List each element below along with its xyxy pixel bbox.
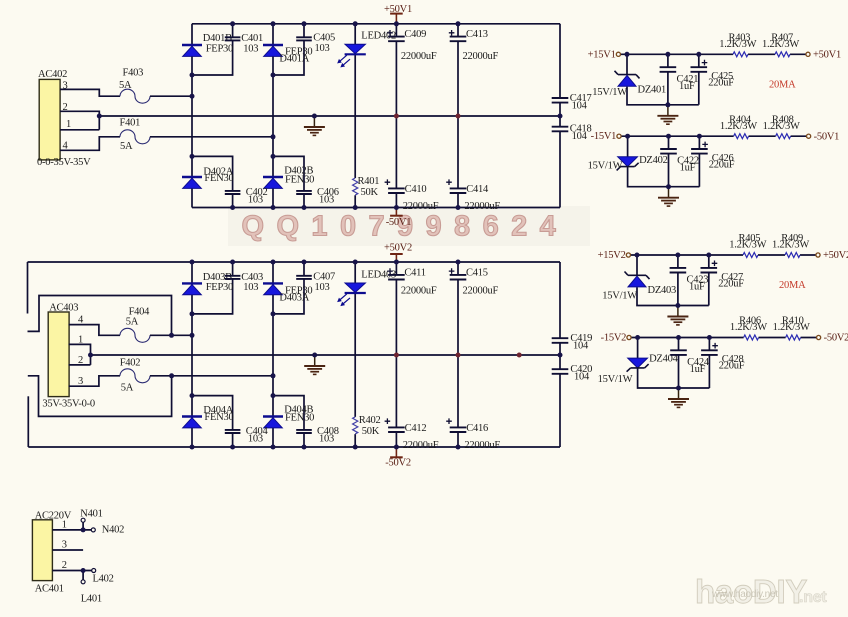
wire +15V2 rail — [631, 254, 816, 256]
node -15V2 junctions — [635, 335, 712, 391]
ground +15V1 — [657, 105, 678, 124]
capacitor C407 — [296, 272, 335, 294]
terminal +15V2 — [598, 250, 631, 261]
wire F403 output to AC1 node — [150, 95, 192, 97]
svg-text:1.2K/3W: 1.2K/3W — [720, 121, 757, 132]
svg-text:+50V2: +50V2 — [384, 242, 412, 253]
wire +15V1 zener branch — [627, 54, 699, 105]
watermark haoDIY.net — [695, 573, 827, 610]
node junctions section2 mid rail red — [394, 353, 522, 358]
svg-text:220uF: 220uF — [708, 78, 734, 89]
wire AC402 pins 2 and 1 tie (0V) — [60, 111, 99, 130]
svg-text:www.haodiy.net: www.haodiy.net — [711, 589, 778, 600]
svg-text:104: 104 — [572, 131, 588, 142]
wire LED/R401 column (x=355.2) — [354, 24, 356, 208]
svg-text:15V/1W: 15V/1W — [592, 87, 627, 98]
svg-text:D403A: D403A — [279, 293, 309, 304]
svg-text:5A: 5A — [120, 141, 133, 152]
svg-text:20MA: 20MA — [769, 79, 796, 90]
wire right loop C419/C420 branch — [559, 262, 561, 447]
diode D401B — [182, 33, 233, 56]
wire -15V2 zener branch — [638, 338, 710, 389]
wire filter column C413/C414 (x=458) — [457, 24, 459, 208]
wire bridge column AC2 section2 (x=273) — [272, 262, 274, 447]
capacitor C402 — [225, 187, 268, 206]
wire AC403 pin 4 to fuse F404 — [69, 325, 120, 336]
LED LED403 — [338, 269, 396, 305]
svg-text:22000uF: 22000uF — [463, 51, 499, 62]
wire left loop lower stub — [28, 376, 172, 417]
capacitor C401 — [225, 33, 263, 54]
capacitor C403 — [225, 272, 263, 293]
wire AC402 pin 4 to fuse F401 — [60, 137, 120, 151]
capacitor C417 — [552, 93, 592, 112]
zener diode DZ402 — [588, 155, 668, 172]
svg-text:103: 103 — [248, 434, 263, 445]
svg-text:N402: N402 — [102, 525, 124, 536]
capacitor C416 — [446, 418, 500, 450]
node junctions section2 bridge — [88, 311, 563, 398]
svg-text:+50V1: +50V1 — [813, 50, 841, 61]
svg-text:220uF: 220uF — [719, 361, 745, 372]
diode D402B — [263, 166, 314, 189]
node junctions section2 bottom rail — [190, 445, 461, 450]
node junctions section1 bottom rail — [230, 205, 460, 210]
svg-text:C416: C416 — [466, 423, 488, 434]
power port +50V2 top — [384, 242, 412, 262]
wire filter column C409/C410 (x=396.4) — [395, 24, 397, 208]
ground main section2 — [304, 355, 325, 374]
wire node wire D404B/C408 — [273, 396, 304, 447]
svg-text:22000uF: 22000uF — [403, 440, 439, 451]
svg-text:1.2K/3W: 1.2K/3W — [773, 322, 810, 333]
wire -15V1 cap branches — [669, 136, 700, 187]
resistor R402 — [353, 415, 381, 437]
svg-text:103: 103 — [315, 43, 330, 54]
svg-text:FEN30: FEN30 — [285, 175, 314, 186]
terminal +50V2 — [816, 250, 848, 261]
current label 20MA section2 — [779, 280, 806, 291]
svg-text:DZ402: DZ402 — [639, 155, 668, 166]
svg-text:15V/1W: 15V/1W — [588, 161, 623, 172]
capacitor C414 — [446, 179, 500, 211]
svg-text:15V/1W: 15V/1W — [602, 291, 637, 302]
wire left loop inner stub — [28, 296, 172, 336]
svg-text:C415: C415 — [466, 267, 488, 278]
resistor R409 — [772, 233, 809, 257]
zener diode DZ404 — [598, 354, 679, 386]
wire AC401 pin 2 wire — [52, 571, 91, 580]
terminal -15V1 — [591, 131, 621, 142]
svg-text:1.2K/3W: 1.2K/3W — [719, 39, 756, 50]
ground -15V1 — [658, 187, 679, 206]
svg-text:FEP30: FEP30 — [206, 282, 233, 293]
diode D404B — [263, 404, 314, 428]
power port -50V1 bottom — [386, 208, 412, 228]
resistor R403 — [719, 32, 756, 56]
svg-text:N401: N401 — [80, 509, 102, 520]
power port +50V1 top — [384, 4, 412, 24]
svg-text:3: 3 — [62, 540, 67, 551]
connector AC402 — [37, 69, 91, 168]
svg-text:DZ401: DZ401 — [638, 85, 667, 96]
svg-text:FEN30: FEN30 — [285, 413, 314, 424]
node L402 — [92, 569, 114, 585]
capacitor C419 — [552, 333, 592, 352]
wire AC401 pin 3 wire — [52, 549, 83, 551]
wire left loop outer top stub — [27, 262, 29, 314]
wire bridge column AC1 section2 (x=192) — [191, 262, 193, 447]
svg-text:1.2K/3W: 1.2K/3W — [772, 240, 809, 251]
svg-text:1.2K/3W: 1.2K/3W — [730, 322, 767, 333]
zener diode DZ403 — [602, 272, 676, 302]
capacitor C421 — [660, 67, 699, 92]
wire top rail +50V1 — [192, 23, 560, 25]
ground -15V2 — [668, 388, 689, 407]
node N401 — [80, 509, 102, 523]
svg-text:D401A: D401A — [279, 54, 309, 65]
svg-text:+15V2: +15V2 — [598, 250, 626, 261]
ground +15V2 — [667, 306, 688, 325]
svg-text:-15V2: -15V2 — [601, 333, 627, 344]
terminal -50V1 — [807, 131, 840, 142]
svg-text:AC401: AC401 — [35, 584, 64, 595]
wire node wire D403A/C407 — [273, 262, 304, 314]
fuse F402 — [120, 358, 150, 394]
svg-text:1uF: 1uF — [689, 282, 705, 293]
svg-text:-50V1: -50V1 — [814, 131, 840, 142]
svg-text:AC403: AC403 — [49, 303, 78, 314]
capacitor C420 — [552, 364, 592, 383]
diode D401A — [263, 45, 312, 65]
capacitor C404 — [225, 426, 269, 445]
resistor R401 — [353, 176, 380, 198]
svg-text:FEN30: FEN30 — [204, 173, 233, 184]
node junctions section1 bridge — [97, 73, 563, 159]
svg-text:22000uF: 22000uF — [463, 285, 499, 296]
svg-text:103: 103 — [243, 282, 258, 293]
resistor R405 — [729, 233, 766, 257]
node +15V1 junctions — [625, 52, 702, 108]
capacitor C411 — [387, 267, 437, 296]
node +15V2 junctions — [635, 253, 712, 309]
capacitor C422 — [660, 149, 699, 174]
wire AC402 pin 3 to fuse F403 — [60, 89, 120, 96]
svg-text:-50V2: -50V2 — [824, 333, 848, 344]
svg-text:F401: F401 — [120, 118, 141, 129]
wire +15V1 rail — [621, 53, 806, 55]
svg-text:R401: R401 — [358, 176, 380, 187]
svg-text:5A: 5A — [126, 317, 139, 328]
svg-text:+50V1: +50V1 — [384, 4, 412, 15]
wire F402 output to AC2 node — [150, 375, 273, 377]
node N402 — [91, 525, 124, 536]
svg-text:.net: .net — [799, 589, 827, 606]
svg-text:4: 4 — [78, 314, 84, 325]
terminal -50V2 — [817, 333, 848, 344]
svg-text:50K: 50K — [361, 187, 379, 198]
svg-text:20MA: 20MA — [779, 280, 806, 291]
svg-text:-15V1: -15V1 — [591, 131, 617, 142]
capacitor C413 — [449, 29, 499, 62]
wire node wire D401B/C401 — [192, 24, 233, 75]
capacitor C424 — [670, 350, 710, 375]
resistor R404 — [720, 114, 757, 138]
capacitor C408 — [296, 426, 339, 445]
node junctions AC401 — [81, 527, 86, 573]
svg-text:1.2K/3W: 1.2K/3W — [762, 39, 799, 50]
terminal -15V2 — [601, 333, 631, 344]
svg-text:1: 1 — [62, 520, 67, 531]
svg-text:C407: C407 — [313, 272, 335, 283]
svg-text:22000uF: 22000uF — [464, 440, 500, 451]
svg-text:1uF: 1uF — [690, 364, 706, 375]
zener diode DZ401 — [592, 71, 666, 98]
node -15V1 junctions — [625, 134, 702, 190]
wire AC403 pins 1 and 2 tie (0V) — [69, 344, 91, 365]
svg-text:104: 104 — [574, 371, 590, 382]
svg-text:R402: R402 — [359, 415, 381, 426]
svg-text:5A: 5A — [121, 382, 134, 393]
svg-text:1uF: 1uF — [680, 163, 696, 174]
wire filter column C415/C416 (x=458) — [457, 262, 459, 447]
resistor R410 — [773, 316, 810, 340]
capacitor C428 — [701, 343, 745, 372]
svg-text:15V/1W: 15V/1W — [598, 374, 633, 385]
fuse F404 — [120, 307, 150, 343]
wire mid rail 0V section2 — [91, 354, 561, 356]
diode D403B — [182, 272, 233, 295]
svg-text:1.2K/3W: 1.2K/3W — [763, 121, 800, 132]
svg-text:C412: C412 — [405, 423, 427, 434]
resistor R406 — [730, 316, 767, 340]
power port -50V2 bottom — [385, 447, 411, 469]
wire top rail +50V2 — [28, 261, 561, 263]
svg-text:103: 103 — [319, 434, 334, 445]
fuse F403 — [119, 68, 150, 104]
terminal +15V1 — [588, 49, 621, 60]
svg-text:103: 103 — [315, 282, 330, 293]
svg-text:F403: F403 — [123, 68, 144, 79]
wire -15V2 rail — [631, 337, 816, 339]
terminal +50V1 — [806, 50, 841, 61]
svg-text:C409: C409 — [404, 29, 426, 40]
svg-text:2: 2 — [62, 560, 67, 571]
fuse F401 — [120, 118, 151, 152]
svg-text:C413: C413 — [466, 29, 488, 40]
svg-text:L402: L402 — [93, 573, 114, 584]
wire node wire D402B/C406 — [273, 156, 304, 207]
wire F404 output to AC1 node — [150, 334, 192, 336]
capacitor C426 — [691, 142, 735, 171]
svg-text:1: 1 — [66, 119, 71, 130]
svg-text:50K: 50K — [362, 426, 380, 437]
wire bridge column AC2 (x=273) — [272, 24, 274, 208]
node junctions section1 mid rail red — [394, 114, 461, 119]
svg-text:C410: C410 — [405, 184, 427, 195]
wire bottom rail -50V2 — [28, 446, 560, 448]
svg-text:104: 104 — [573, 340, 589, 351]
svg-text:103: 103 — [248, 195, 263, 206]
wire node wire D401A/C405 — [273, 24, 304, 75]
svg-text:F402: F402 — [120, 358, 141, 369]
svg-text:-50V2: -50V2 — [385, 458, 411, 469]
wire AC403 pin 3 to fuse F402 — [69, 376, 120, 386]
svg-text:L401: L401 — [81, 593, 102, 604]
resistor R408 — [763, 114, 800, 138]
wire AC401 pin 1 wire — [52, 522, 91, 530]
svg-text:5A: 5A — [119, 80, 132, 91]
svg-text:FEP30: FEP30 — [206, 43, 233, 54]
capacitor C412 — [385, 418, 439, 450]
svg-text:0-0-35V-35V: 0-0-35V-35V — [37, 157, 91, 168]
svg-text:C414: C414 — [466, 184, 489, 195]
resistor R407 — [762, 32, 799, 56]
svg-text:+50V2: +50V2 — [823, 250, 848, 261]
node L401 — [81, 580, 102, 605]
wire -15V1 rail — [621, 135, 806, 137]
svg-text:103: 103 — [319, 195, 334, 206]
ground main section1 — [304, 116, 325, 135]
svg-text:AC402: AC402 — [38, 69, 67, 80]
capacitor C423 — [670, 268, 709, 293]
wire node wire D404A/C404 — [192, 396, 233, 447]
capacitor C410 — [385, 179, 439, 211]
wire left loop outer bottom stub — [27, 396, 29, 447]
svg-text:FEN30: FEN30 — [204, 412, 233, 423]
capacitor C427 — [701, 261, 745, 290]
diode D404A — [182, 405, 234, 428]
wire +15V2 zener branch — [637, 255, 709, 306]
wire +15V1 cap branches — [668, 54, 699, 105]
svg-text:22000uF: 22000uF — [401, 51, 437, 62]
wire node wire D403B/C403 — [192, 262, 233, 314]
node junctions section1 top rail — [230, 21, 460, 26]
svg-text:+15V1: +15V1 — [588, 49, 616, 60]
node junctions section2 top rail — [190, 260, 461, 265]
svg-text:35V-35V-0-0: 35V-35V-0-0 — [42, 399, 94, 410]
wire node wire D402A/C402 — [192, 156, 233, 207]
wire bridge column AC1 (x=192) — [191, 24, 193, 208]
wire -15V2 cap branches — [679, 338, 710, 389]
wire mid rail 0V section1 — [99, 115, 560, 117]
capacitor C406 — [296, 187, 339, 206]
capacitor C405 — [296, 32, 335, 54]
svg-text:22000uF: 22000uF — [403, 201, 439, 212]
connector AC401 — [32, 510, 71, 594]
svg-text:103: 103 — [243, 43, 258, 54]
svg-text:C411: C411 — [404, 267, 425, 278]
svg-text:DZ403: DZ403 — [648, 285, 677, 296]
diode D402A — [182, 166, 234, 188]
wire -15V1 zener branch — [628, 136, 700, 187]
capacitor C418 — [552, 123, 592, 142]
current label 20MA section1 — [769, 79, 796, 90]
wire bottom rail -50V1 — [192, 207, 560, 209]
capacitor C409 — [387, 29, 437, 62]
wire filter column C411/C412 (x=396.4) — [395, 262, 397, 447]
svg-text:-50V1: -50V1 — [386, 217, 412, 228]
diode D403A — [263, 283, 312, 303]
capacitor C415 — [449, 267, 499, 296]
wire +15V2 cap branches — [678, 255, 709, 306]
capacitor C425 — [691, 60, 735, 89]
connector AC403 — [42, 303, 94, 410]
svg-text:22000uF: 22000uF — [401, 285, 437, 296]
svg-text:220uF: 220uF — [718, 278, 744, 289]
svg-text:220uF: 220uF — [709, 159, 735, 170]
wire F401 output to AC2 node — [150, 136, 273, 138]
watermark QQ107998624 — [228, 206, 590, 246]
svg-text:104: 104 — [572, 101, 588, 112]
LED LED402 — [338, 31, 396, 67]
svg-text:22000uF: 22000uF — [464, 201, 500, 212]
svg-text:1.2K/3W: 1.2K/3W — [729, 240, 766, 251]
wire right loop C417/C418 branch — [559, 24, 561, 208]
svg-text:1uF: 1uF — [679, 81, 695, 92]
wire LED/R402 column section2 (x=355.2) — [354, 262, 356, 447]
svg-text:C405: C405 — [313, 32, 335, 43]
